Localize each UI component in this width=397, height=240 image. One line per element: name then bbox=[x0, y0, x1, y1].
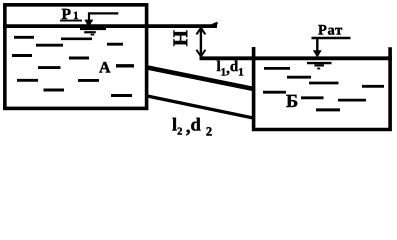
P1 arrowhead bbox=[84, 20, 93, 28]
free-surface hatch tank B bbox=[307, 62, 332, 64]
Pat arrowhead bbox=[313, 50, 322, 58]
water dash b4 bbox=[362, 85, 384, 88]
water dash b3 bbox=[309, 82, 339, 85]
water line tank A (extends right to H arrow) bbox=[3, 24, 217, 28]
water dash a11 bbox=[44, 89, 65, 92]
Pat arrow shaft bbox=[316, 39, 318, 52]
pipe 1 bbox=[146, 67, 254, 89]
water dash a10 bbox=[78, 79, 99, 82]
water dash a7 bbox=[38, 66, 61, 69]
P1 arrow (bar + shaft) bbox=[89, 13, 118, 20]
water dash a9 bbox=[17, 79, 38, 82]
up-tick at end of water line bbox=[212, 23, 218, 26]
water dash b2 bbox=[287, 76, 311, 79]
underline of P1 bbox=[60, 20, 82, 22]
water dash b6 bbox=[301, 96, 324, 99]
water dash a12 bbox=[111, 94, 132, 97]
svg-text:Рат: Рат bbox=[318, 23, 343, 39]
svg-text:Б: Б bbox=[286, 92, 298, 112]
water dash a4 bbox=[107, 43, 123, 46]
water dash a8 bbox=[116, 64, 134, 67]
water dash a3 bbox=[36, 44, 63, 47]
H arrowhead top bbox=[196, 28, 205, 35]
water dash b7 bbox=[338, 99, 366, 102]
water dash b1 bbox=[264, 67, 290, 70]
tank B walls (open top) bbox=[254, 47, 391, 130]
H dimension arrow shaft bbox=[200, 28, 202, 56]
svg-text:H: H bbox=[169, 30, 193, 46]
underline of Pat bbox=[312, 37, 351, 40]
H arrowhead bottom bbox=[196, 50, 205, 57]
water dash a5 bbox=[12, 54, 32, 57]
free-surface hatch tank A bbox=[80, 28, 106, 30]
water dash a6 bbox=[69, 57, 89, 60]
water dash b5 bbox=[263, 91, 286, 94]
water dash a2 bbox=[61, 37, 92, 40]
water line tank B / lower reference line bbox=[200, 56, 392, 60]
water dash a1 bbox=[14, 36, 34, 39]
pipe 2 bbox=[146, 96, 254, 118]
svg-text:A: A bbox=[99, 60, 111, 77]
tank A outline bbox=[5, 5, 147, 109]
water dash b8 bbox=[316, 108, 340, 111]
